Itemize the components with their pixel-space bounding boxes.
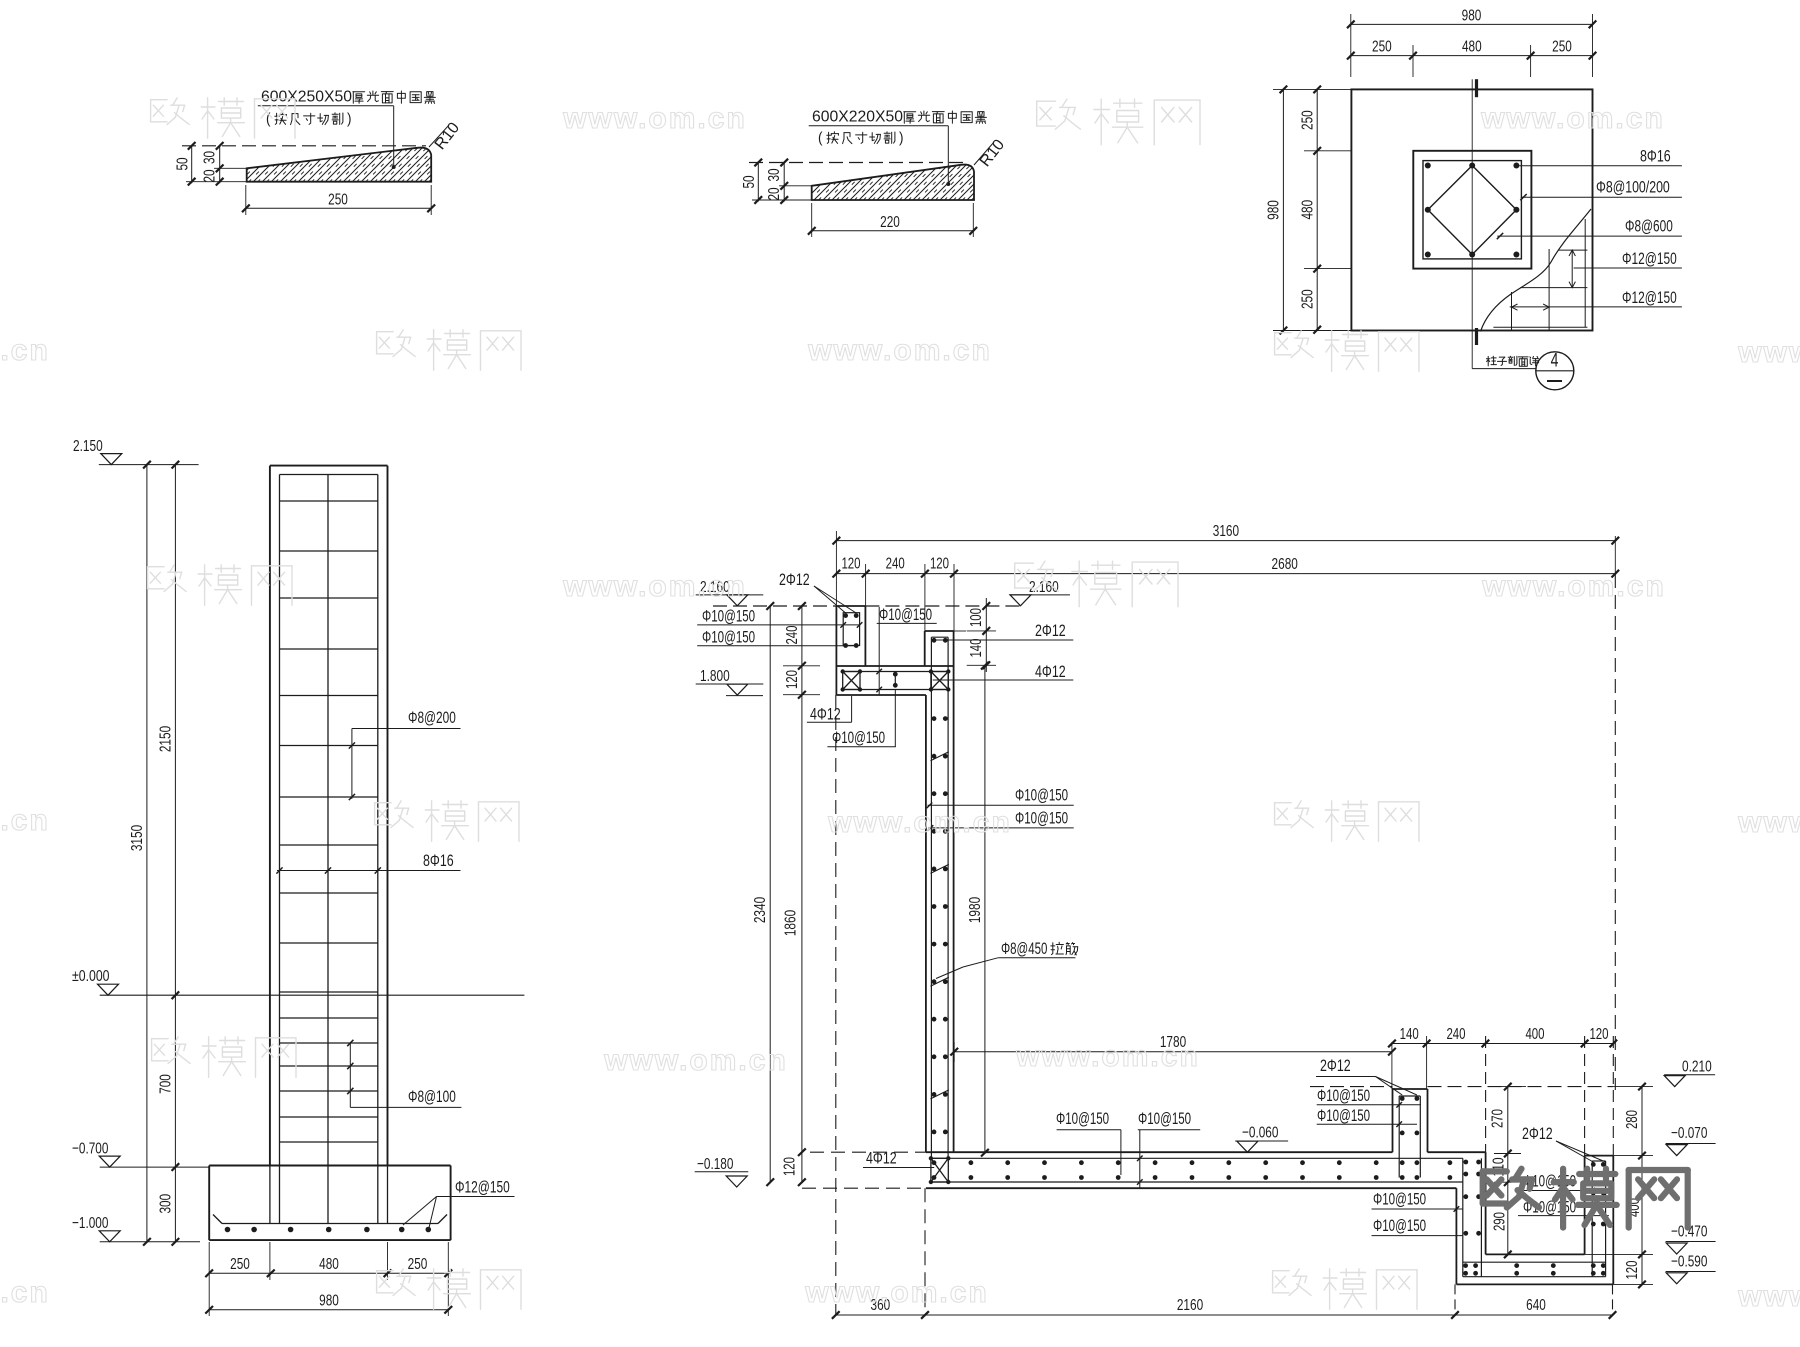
svg-text:Φ12@150: Φ12@150: [1622, 288, 1677, 307]
label 8phi16: [1519, 165, 1682, 167]
svg-text:1980: 1980: [967, 897, 984, 923]
svg-text:600X250X50: 600X250X50: [261, 89, 352, 106]
svg-text:±0.000: ±0.000: [72, 968, 110, 985]
svg-text:www.om.cn: www.om.cn: [827, 806, 1012, 839]
svg-text:250: 250: [230, 1256, 250, 1273]
label phi8@600: [1497, 235, 1682, 237]
svg-text:700: 700: [158, 1074, 175, 1094]
svg-text:250: 250: [1300, 110, 1317, 130]
svg-text:www.om.cn: www.om.cn: [0, 1276, 50, 1309]
svg-text:290: 290: [1492, 1212, 1509, 1231]
svg-text:3160: 3160: [1213, 523, 1239, 540]
svg-text:Φ12@150: Φ12@150: [455, 1178, 510, 1197]
svg-text:Φ10@150: Φ10@150: [702, 608, 755, 626]
detail 1 R10 leader: [429, 125, 449, 147]
svg-text:www.om.cn: www.om.cn: [1480, 102, 1665, 135]
watermarks light: [151, 99, 168, 101]
U-channel left wall: [836, 605, 865, 607]
svg-text:www.om.cn: www.om.cn: [807, 334, 992, 367]
svg-text:250: 250: [1300, 289, 1317, 309]
column section: diamond tie: [1428, 166, 1517, 255]
main wall faces: [953, 631, 955, 1152]
dashed extensions for trough walls: [1485, 1036, 1487, 1152]
svg-text:www.om.cn: www.om.cn: [562, 570, 747, 603]
svg-text:8Φ16: 8Φ16: [1640, 147, 1671, 166]
bottom dim 360 2160 640: [836, 1314, 1613, 1316]
svg-text:100: 100: [968, 608, 985, 627]
svg-text:Φ8@600: Φ8@600: [1625, 217, 1673, 236]
svg-text:120: 120: [841, 556, 860, 573]
svg-text:2340: 2340: [752, 897, 769, 923]
footing rebar dots: [225, 1227, 231, 1233]
column section dim 980 top: [1351, 23, 1593, 25]
detail 2: stone coping section 600X220X50: [770, 158, 1059, 208]
svg-text:480: 480: [1300, 200, 1317, 220]
U slab cage: [843, 671, 949, 673]
svg-text:980: 980: [319, 1293, 339, 1310]
svg-text:Φ10@150: Φ10@150: [879, 606, 932, 624]
dim 3160: [836, 540, 1615, 542]
detail 2 dim 50: [757, 163, 759, 202]
footing dim 250 480 250: [209, 1272, 448, 1274]
svg-text:2Φ12: 2Φ12: [779, 570, 810, 589]
svg-text:20: 20: [766, 187, 783, 200]
label phi12@150 upper: [1574, 267, 1682, 269]
svg-text:640: 640: [1526, 1297, 1546, 1314]
wall top dashed 2.160 level: [713, 605, 836, 607]
svg-text:−0.590: −0.590: [1671, 1254, 1707, 1271]
dim 2340: [769, 606, 771, 1182]
column elevation outline: [270, 465, 388, 467]
dim 120 240 120 and 2680: [836, 573, 1615, 575]
svg-text:−0.180: −0.180: [697, 1156, 733, 1173]
svg-text:240: 240: [886, 556, 905, 573]
column section dim 980 left: [1282, 89, 1284, 330]
svg-text:(: (: [818, 130, 823, 147]
footing outline: [209, 1165, 450, 1167]
base slab dots: [932, 1160, 937, 1165]
detail 2 dim 220: [812, 230, 974, 232]
svg-text:250: 250: [1372, 39, 1392, 56]
column stirrups: [280, 500, 378, 502]
footing mesh grid: [1511, 292, 1513, 331]
svg-text:480: 480: [319, 1256, 339, 1273]
column section: outer footing square 980x980: [1351, 89, 1592, 330]
svg-text:2Φ12: 2Φ12: [1035, 621, 1066, 640]
ground line 0.000: [100, 994, 525, 996]
svg-text:2Φ12: 2Φ12: [1522, 1124, 1553, 1143]
svg-text:50: 50: [175, 157, 192, 170]
svg-text:Φ10@150: Φ10@150: [1015, 787, 1068, 805]
svg-text:Φ10@150: Φ10@150: [1056, 1110, 1109, 1128]
base slab X-box at wall: [931, 1158, 948, 1182]
svg-text:250: 250: [408, 1256, 428, 1273]
svg-text:2680: 2680: [1272, 556, 1298, 573]
svg-text:www.om.cn: www.om.cn: [804, 1276, 989, 1309]
svg-text:−0.700: −0.700: [72, 1141, 108, 1158]
svg-text:Φ10@150: Φ10@150: [832, 729, 885, 747]
svg-text:www.om.cn: www.om.cn: [0, 804, 50, 837]
section bubble 4: [1472, 368, 1536, 370]
column section dim 250 480 250 top: [1351, 55, 1593, 57]
svg-text:400: 400: [1525, 1026, 1544, 1043]
svg-text:Φ10@150: Φ10@150: [1373, 1217, 1426, 1235]
dim 100 140 right of U: [985, 598, 987, 672]
svg-text:300: 300: [158, 1194, 175, 1214]
U-channel slab: [836, 665, 953, 667]
svg-text:240: 240: [784, 625, 801, 644]
svg-text:250: 250: [1552, 39, 1572, 56]
svg-text:50: 50: [741, 175, 758, 188]
footing dim 980: [209, 1309, 448, 1311]
svg-text:Φ8@100/200: Φ8@100/200: [1596, 178, 1670, 197]
footing bottom rebar with hooks: [222, 1223, 438, 1225]
svg-text:120: 120: [1624, 1260, 1641, 1279]
column section: stirrup square: [1423, 161, 1521, 259]
svg-text:2Φ12: 2Φ12: [1320, 1056, 1351, 1075]
dim 1780: [954, 1051, 1392, 1053]
svg-text:Φ10@150: Φ10@150: [1015, 810, 1068, 828]
svg-text:−0.070: −0.070: [1671, 1125, 1707, 1142]
column section: column 480 square: [1413, 151, 1531, 269]
wall rebar dot pairs and ties: [932, 638, 937, 643]
svg-text:280: 280: [1624, 1110, 1641, 1129]
svg-text:Φ10@150: Φ10@150: [1317, 1087, 1370, 1105]
base slab cage: [931, 1157, 1462, 1159]
svg-text:980: 980: [1266, 200, 1283, 220]
detail 1 dim 50: [191, 146, 193, 184]
svg-text:120: 120: [930, 556, 949, 573]
column vertical rebar lines: [279, 475, 281, 1224]
svg-text:−0.060: −0.060: [1242, 1125, 1278, 1142]
svg-text:4Φ12: 4Φ12: [866, 1149, 897, 1168]
label phi12@150 lower: [1510, 306, 1682, 308]
svg-text:): ): [899, 130, 904, 147]
column section: 8 rebar dots: [1425, 163, 1431, 169]
dim 270 110 290: [1507, 1087, 1509, 1255]
dim 2150 700 300: [174, 465, 176, 1242]
dim 240 120 1860 120: [801, 606, 803, 1182]
svg-text:Φ10@150: Φ10@150: [702, 629, 755, 647]
U-channel right wall top: [925, 630, 954, 632]
svg-text:480: 480: [1462, 39, 1482, 56]
svg-text:1860: 1860: [783, 910, 800, 936]
svg-text:250: 250: [328, 192, 348, 209]
svg-text:www.om.cn: www.om.cn: [1737, 806, 1800, 839]
svg-text:30: 30: [202, 151, 219, 164]
svg-text:2160: 2160: [1177, 1297, 1203, 1314]
detail 2 top dashed line: [749, 162, 968, 164]
trough cage dots: [1463, 1160, 1468, 1165]
svg-text:www.om.cn: www.om.cn: [0, 334, 50, 367]
detail 2 R10 leader: [974, 142, 994, 165]
svg-text:220: 220: [880, 214, 900, 231]
svg-text:980: 980: [1462, 8, 1482, 25]
column section centerline: [1471, 79, 1473, 368]
break curve: [1481, 209, 1592, 332]
svg-text:www.om.cn: www.om.cn: [1481, 570, 1666, 603]
detail 2 dim 30 20: [783, 163, 785, 202]
svg-text:Φ8@100: Φ8@100: [408, 1087, 456, 1106]
label phi8@100/200: [1521, 196, 1682, 198]
dim 1980: [984, 666, 986, 1153]
curb cage: [1398, 1096, 1400, 1178]
svg-text:140: 140: [1400, 1026, 1419, 1043]
svg-text:600X220X50: 600X220X50: [812, 109, 903, 126]
detail 1 dim 30 20: [219, 146, 221, 184]
dashed 0.210 level line: [1310, 1086, 1393, 1088]
svg-text:140: 140: [968, 638, 985, 657]
svg-text:8Φ16: 8Φ16: [423, 851, 454, 870]
svg-text:4Φ12: 4Φ12: [1035, 662, 1066, 681]
svg-text:240: 240: [1446, 1026, 1465, 1043]
svg-text:): ): [347, 111, 352, 128]
svg-text:4: 4: [1551, 351, 1559, 372]
svg-text:2150: 2150: [158, 726, 175, 752]
dim 3150: [146, 465, 148, 1242]
svg-text:−1.000: −1.000: [72, 1215, 108, 1232]
svg-text:20: 20: [202, 169, 219, 182]
svg-text:120: 120: [782, 1157, 799, 1176]
trough cage: [1462, 1158, 1464, 1276]
detail 1: stone coping section 600X250X50: [200, 140, 516, 190]
curb upstand: [1393, 1088, 1428, 1090]
column section dim 250 480 250 left: [1316, 89, 1318, 330]
base slab outline: [926, 1151, 1393, 1153]
svg-text:Φ10@150: Φ10@150: [1138, 1110, 1191, 1128]
svg-text:Φ12@150: Φ12@150: [1622, 249, 1677, 268]
svg-text:120: 120: [784, 670, 801, 689]
svg-text:Φ8@450: Φ8@450: [1001, 940, 1047, 958]
svg-text:www.om.cn: www.om.cn: [562, 102, 747, 135]
svg-text:2.150: 2.150: [73, 438, 103, 455]
trough outline: [1455, 1188, 1457, 1284]
svg-text:270: 270: [1490, 1109, 1507, 1128]
dashed hidden lines left of wall: [835, 695, 837, 1315]
svg-text:www.om.cn: www.om.cn: [1015, 1040, 1200, 1073]
wall cage verticals: [930, 637, 932, 1158]
column face lines into footing: [269, 1166, 271, 1224]
svg-text:www.om.cn: www.om.cn: [1737, 336, 1800, 369]
svg-text:3150: 3150: [129, 825, 146, 851]
dim 140 240 400 120 top right: [1392, 1043, 1613, 1045]
detail 1 top dashed line: [182, 145, 426, 147]
watermark dark big: [1483, 1168, 1507, 1174]
svg-text:Φ10@150: Φ10@150: [1317, 1107, 1370, 1125]
svg-text:www.om.cn: www.om.cn: [603, 1044, 788, 1077]
svg-text:www.om.cn: www.om.cn: [1737, 1280, 1800, 1313]
left wall cage: [843, 613, 859, 646]
svg-text:Φ8@200: Φ8@200: [408, 708, 456, 727]
right chain dim 280 400 120: [1641, 1087, 1643, 1285]
detail 1 dim 250: [246, 207, 431, 209]
svg-text:1.800: 1.800: [700, 668, 730, 685]
svg-text:120: 120: [1589, 1026, 1608, 1043]
right boundary dashed: [1614, 536, 1616, 574]
svg-text:Φ10@150: Φ10@150: [1373, 1191, 1426, 1209]
svg-text:0.210: 0.210: [1682, 1059, 1712, 1076]
label phi8@450 tie bars: [1051, 943, 1052, 955]
svg-text:30: 30: [766, 168, 783, 181]
